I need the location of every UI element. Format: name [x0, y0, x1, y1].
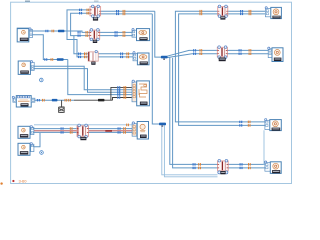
wire R3 right pair to gauge1	[100, 32, 132, 35]
blue markers R5 right	[239, 49, 240, 51]
multipin component U1	[132, 80, 149, 106]
component box4	[18, 126, 30, 138]
gauge1 component	[132, 28, 150, 40]
wire R2 right to top-right conn	[228, 11, 266, 14]
wire box4 to R7 lower	[34, 131, 132, 133]
wire branch V73.9 to R4 upper	[74, 36, 88, 54]
blue markers R4 left	[78, 53, 79, 55]
splice on box1 top wire	[58, 30, 64, 33]
wire R1 right top run	[101, 10, 155, 12]
top-right component	[265, 7, 281, 19]
component box3 (fuse box)	[16, 96, 31, 107]
orange markers R1 left	[87, 9, 88, 12]
blue markers R1 right	[116, 10, 117, 12]
blue markers box1 top wire	[45, 30, 46, 32]
orange markers light wire engine	[126, 124, 127, 127]
connector box1	[29, 28, 33, 38]
frame border	[11, 2, 292, 183]
frame tick label left	[25, 1, 30, 3]
blue markers R6 left	[193, 163, 194, 165]
wire box1 bottom pin down to H59.5	[33, 35, 68, 60]
wire drop to bottom row lower	[173, 58, 218, 168]
relay R4 highlighted	[88, 50, 98, 64]
orange markers R5 right	[249, 49, 250, 52]
wire black w5 branch	[113, 98, 132, 101]
orange markers bottom-right	[248, 163, 249, 166]
blue markers right-mid	[239, 121, 240, 123]
frame tick label mid	[94, 1, 99, 3]
orange markers R4 left	[84, 52, 85, 55]
blue markers R3 left	[78, 31, 79, 33]
orange markers R2 right	[249, 10, 250, 13]
wire box5 stub up	[34, 133, 40, 147]
shield symbol near box2	[40, 78, 44, 82]
wire R2 left bottom run from V178.6 to right-mid lower	[179, 14, 265, 126]
blue markers R3 right	[115, 31, 116, 33]
wire R1 right bottom run	[101, 13, 153, 15]
blue markers R7 left	[61, 127, 62, 129]
relay R7	[77, 124, 89, 140]
wire black run from box3	[74, 99, 113, 101]
wire R2 left top run from V175.4 to right-mid upper	[175, 11, 265, 122]
orange markers box3 wire pre-splice	[42, 99, 43, 102]
relay R5	[217, 46, 227, 61]
wire box1 top pin to R3 upper	[33, 31, 90, 32]
wire drop to bottom row upper	[170, 57, 218, 164]
orange markers box1 bottom vertical	[51, 58, 52, 61]
wire red run left of R7	[34, 130, 77, 132]
orange markers R7 right	[123, 127, 124, 130]
wire R6 right to bottom-right comp	[228, 164, 265, 168]
orange markers R7 left	[70, 127, 71, 130]
component box1 (1321)	[17, 28, 29, 42]
wire junction1 fan lower to R5 lower	[167, 54, 217, 58]
orange markers box3 wire post-splice	[65, 99, 66, 102]
orange markers multipin wires	[124, 86, 125, 89]
splice on box3 wire	[52, 99, 58, 102]
wire R1 left bottom via V70.6 to R3 lower	[71, 13, 90, 35]
connector box3 right	[31, 98, 35, 102]
shield symbol near box5	[40, 151, 44, 155]
svg-text:3-60: 3-60	[19, 179, 28, 184]
connector box2	[30, 61, 34, 71]
component box5	[18, 143, 30, 155]
wire R1 left top via V67 to V77 to R4 lower	[67, 10, 90, 57]
wire V67.8 down to w4 multipin pin	[68, 60, 132, 95]
red splice	[105, 130, 112, 132]
bottom-right component	[265, 161, 282, 174]
ground MH symbol	[59, 107, 65, 112]
engine component	[132, 122, 148, 140]
connector box4	[30, 126, 34, 135]
wire red run right of R7	[89, 130, 133, 132]
blue markers R2 right	[240, 10, 241, 12]
blue markers R1 left	[79, 9, 80, 11]
wire box3 right blue part	[35, 99, 74, 101]
relay R3	[90, 29, 100, 43]
connector box5	[30, 143, 34, 152]
junction1 splice	[161, 56, 168, 59]
blue markers R4 right	[120, 53, 121, 55]
wire drop V154.8 to junction1	[155, 11, 161, 57]
wire vertical link right-mid to bottom-right	[264, 130, 265, 164]
wire box2 bottom to w3	[34, 69, 132, 93]
wire R4 right pair to gauge2	[98, 54, 133, 57]
orange markers R3 right gauge1	[123, 31, 124, 34]
junction2 splice2	[159, 123, 166, 126]
right-mid component	[265, 119, 282, 131]
margin orange dot	[0, 182, 2, 184]
orange markers R5 left	[200, 49, 201, 52]
connector box3 left	[12, 96, 16, 102]
orange markers R2 left	[200, 10, 201, 13]
relay R2	[218, 5, 228, 20]
component box2	[18, 61, 30, 74]
gauge2 component	[133, 52, 149, 65]
blue markers bottom-right	[240, 163, 241, 165]
gauge3 component	[268, 47, 283, 61]
wire light top row bottom-left comp	[34, 124, 132, 126]
black splice	[98, 99, 104, 102]
wire drop V152.3 to splice2	[152, 14, 159, 124]
orange markers R6 left	[198, 163, 199, 166]
footer red dot	[12, 180, 14, 182]
relay R6	[218, 159, 229, 174]
orange markers box1 top wire	[52, 30, 53, 33]
blue markers box1 bottom vertical wire	[44, 58, 45, 60]
wire black w1 branch up	[111, 87, 132, 100]
orange markers R3 left	[86, 31, 87, 34]
relay R1	[90, 5, 101, 21]
orange markers R1 right	[123, 10, 124, 13]
blue markers box3 wire	[37, 99, 38, 101]
wire box4 to R7 upper	[34, 128, 132, 130]
wire light pair from splice2 down	[162, 125, 218, 177]
blue markers multipin wires	[117, 86, 118, 88]
ground MH lead	[59, 100, 64, 107]
wire R5 right to gauge3	[227, 50, 268, 53]
blue markers R7 right	[118, 127, 119, 129]
orange markers right-mid	[248, 121, 249, 124]
wire junction1 fan upper to R5 upper	[167, 50, 217, 56]
orange markers R4 right gauge2	[126, 52, 127, 55]
blue markers R5 left	[193, 49, 194, 51]
wire box2 top to w2	[34, 66, 132, 90]
splice on box1 bottom wire	[57, 58, 64, 61]
